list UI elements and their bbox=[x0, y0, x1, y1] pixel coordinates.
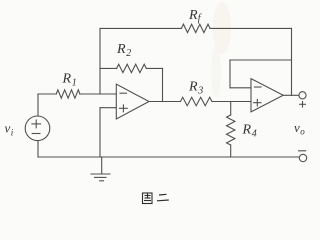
svg-text:R: R bbox=[188, 80, 198, 95]
wire U2 feedback left vertical bbox=[229, 60, 231, 88]
wire U1 non-inverting input ground riser bbox=[99, 108, 101, 157]
svg-text:R: R bbox=[242, 123, 252, 138]
wire R2 loop right vertical bbox=[162, 68, 164, 101]
op-amp U2 plus label bbox=[254, 99, 261, 106]
wire R4 bottom stem bbox=[230, 145, 232, 157]
label Rf bbox=[188, 8, 202, 24]
op-amp U1 bbox=[116, 84, 149, 119]
label R2 bbox=[116, 42, 131, 59]
resistor R4 bbox=[227, 115, 235, 145]
wire Rf top row right lead bbox=[210, 27, 292, 29]
op-amp U1 plus label bbox=[120, 105, 128, 112]
source vi circle bbox=[25, 116, 50, 141]
wire R1 row left lead bbox=[38, 93, 56, 95]
svg-text:R: R bbox=[62, 72, 72, 87]
wire vi source top lead bbox=[37, 94, 39, 116]
source vi plus sign bbox=[32, 120, 41, 128]
wire right output vertical (Rf and feedback join) bbox=[291, 28, 293, 95]
resistor R2 bbox=[117, 64, 147, 72]
svg-text:4: 4 bbox=[252, 129, 257, 140]
svg-text:1: 1 bbox=[72, 78, 77, 89]
svg-text:2: 2 bbox=[126, 48, 131, 59]
wire R4 top stem bbox=[230, 102, 232, 116]
wire U1 non-inverting input stub bbox=[100, 107, 116, 109]
wire U2 feedback top row bbox=[230, 59, 292, 61]
wire Rf top row left lead bbox=[100, 27, 181, 29]
op-amp U2 bbox=[251, 79, 283, 112]
svg-text:R: R bbox=[188, 8, 198, 23]
terminal vo bottom circle bbox=[299, 154, 306, 161]
ground symbol bbox=[91, 157, 110, 181]
op-amp U1 minus label bbox=[120, 92, 127, 94]
terminal vo top circle bbox=[299, 92, 306, 99]
wire bottom ground rail bbox=[38, 156, 299, 158]
svg-text:o: o bbox=[300, 127, 305, 137]
label R1 bbox=[62, 72, 77, 89]
svg-text:v: v bbox=[5, 121, 11, 136]
svg-text:R: R bbox=[116, 42, 126, 57]
svg-text:3: 3 bbox=[197, 86, 203, 97]
wire U1 output row bbox=[149, 101, 181, 103]
wire R2 branch right lead bbox=[146, 67, 162, 69]
label vi bbox=[5, 121, 14, 138]
caption character 二 bbox=[157, 194, 169, 201]
wire R2 branch left lead bbox=[100, 67, 117, 69]
source vi minus sign bbox=[32, 133, 40, 135]
op-amp U2 minus label bbox=[254, 86, 261, 88]
label R4 bbox=[242, 123, 257, 140]
wire R1 row right lead to op-amp U1 inverting input bbox=[80, 93, 116, 95]
label vo bbox=[294, 120, 305, 137]
wire vi source bottom lead bbox=[37, 141, 39, 157]
wire U2 inverting input stub bbox=[230, 87, 251, 89]
terminal vo bottom minus marker bbox=[299, 150, 306, 152]
label R3 bbox=[188, 80, 203, 97]
resistor R3 bbox=[181, 97, 213, 105]
terminal vo plus marker bbox=[300, 102, 306, 108]
wire U2 output lead bbox=[283, 94, 299, 96]
wire node A vertical (inverting input riser) bbox=[99, 28, 101, 94]
resistor R1 bbox=[56, 90, 80, 98]
resistor Rf bbox=[181, 24, 210, 32]
wire R3 right lead to op-amp U2 non-inverting input bbox=[212, 101, 251, 103]
svg-text:v: v bbox=[294, 120, 300, 135]
caption character 圖 bbox=[143, 193, 153, 204]
